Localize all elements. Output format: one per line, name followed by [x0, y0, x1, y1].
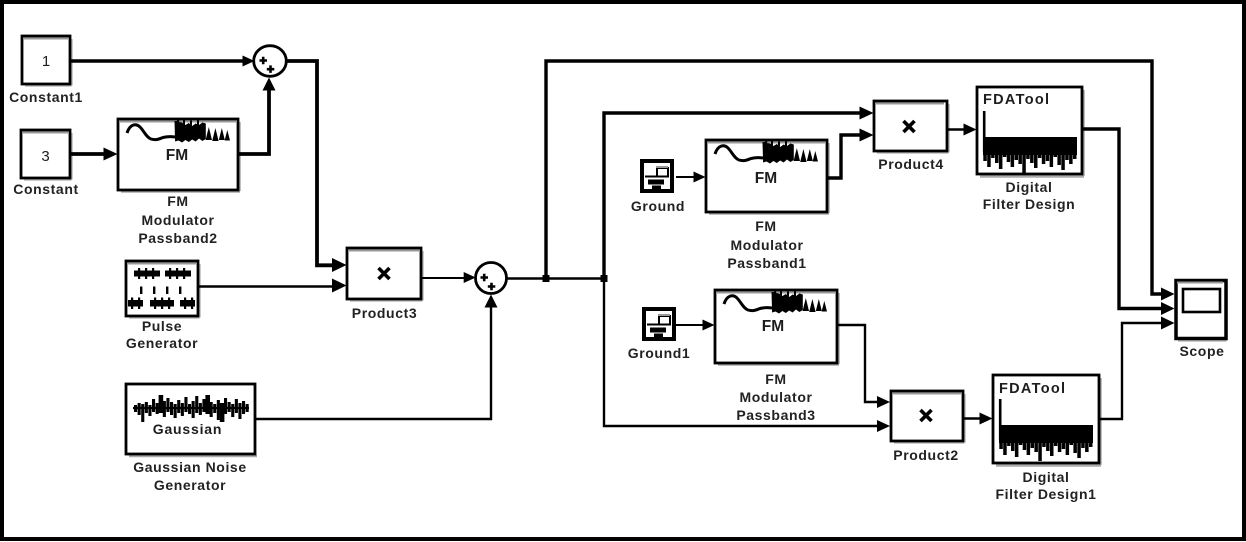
wire junction A up over top to Scope input 1 — [546, 61, 1175, 301]
svg-text:3: 3 — [41, 148, 49, 165]
wire Product3 to Sum2 — [421, 272, 476, 283]
svg-text:FM: FM — [755, 170, 777, 187]
block Pulse Generator — [126, 261, 200, 351]
svg-text:FM: FM — [765, 371, 786, 387]
wire Constant1 to Sum1 — [70, 56, 255, 67]
svg-text:Scope: Scope — [1179, 343, 1224, 359]
wire Sum1 to Product3 input 1 — [286, 61, 346, 272]
svg-text:Passband3: Passband3 — [736, 407, 815, 423]
wire FM Modulator Passband1 to Product4 input 2 — [827, 129, 874, 179]
block FM Modulator Passband2 — [118, 119, 240, 246]
svg-text:Product4: Product4 — [878, 156, 943, 172]
block Ground — [631, 161, 685, 214]
block Constant1 — [9, 36, 83, 105]
wire junction B to Product4 input 1 — [604, 107, 874, 279]
svg-text:FDATool: FDATool — [983, 92, 1050, 108]
block Scope — [1176, 281, 1227, 360]
svg-text:Product2: Product2 — [893, 447, 958, 463]
block Product4 — [874, 101, 949, 172]
wire Sum2 output to junctions — [507, 277, 605, 279]
block FM Modulator Passband1 — [706, 140, 829, 271]
svg-text:Modulator: Modulator — [739, 389, 812, 405]
svg-text:Passband1: Passband1 — [727, 255, 806, 271]
junction node A — [543, 275, 550, 282]
block Gaussian Noise Generator — [126, 384, 257, 493]
block Digital Filter Design1 — [993, 375, 1101, 502]
wire FM Modulator Passband3 to Product2 input 1 — [837, 325, 890, 408]
svg-text:Digital: Digital — [1023, 469, 1070, 485]
wire Constant to FM Modulator Passband2 — [70, 148, 118, 161]
sum block Sum2 — [476, 263, 507, 294]
svg-text:Filter Design: Filter Design — [983, 196, 1076, 212]
wire Ground to FM Modulator Passband1 — [676, 172, 706, 183]
svg-text:Pulse: Pulse — [142, 318, 182, 334]
svg-text:Generator: Generator — [126, 335, 198, 351]
svg-text:Filter Design1: Filter Design1 — [996, 486, 1097, 502]
wire Product4 to Digital Filter Design — [947, 124, 977, 136]
svg-text:Gaussian Noise: Gaussian Noise — [133, 459, 246, 475]
svg-text:Constant: Constant — [13, 181, 78, 197]
block Constant — [13, 130, 78, 197]
svg-text:Modulator: Modulator — [141, 212, 214, 228]
wire Product2 to Digital Filter Design1 — [963, 413, 993, 425]
wire FM Modulator Passband2 to Sum1 — [238, 78, 276, 155]
block FM Modulator Passband3 — [715, 290, 839, 423]
block Digital Filter Design — [977, 87, 1084, 212]
svg-text:Product3: Product3 — [352, 305, 417, 321]
svg-text:Gaussian: Gaussian — [153, 421, 222, 437]
svg-text:FM: FM — [755, 218, 776, 234]
block Ground1 — [628, 309, 691, 361]
svg-text:FM: FM — [166, 147, 188, 164]
svg-text:1: 1 — [42, 53, 50, 70]
svg-text:FDATool: FDATool — [999, 381, 1066, 397]
svg-text:Ground1: Ground1 — [628, 345, 691, 361]
svg-text:Modulator: Modulator — [730, 237, 803, 253]
junction node B — [601, 275, 608, 282]
svg-text:Digital: Digital — [1006, 179, 1053, 195]
block Product2 — [891, 391, 965, 463]
wire Ground1 to FM Modulator Passband3 — [676, 320, 715, 331]
wire Pulse Generator to Product3 input 2 — [198, 279, 347, 293]
svg-text:FM: FM — [762, 318, 784, 335]
block Product3 — [347, 248, 423, 321]
svg-text:Ground: Ground — [631, 198, 685, 214]
svg-text:Generator: Generator — [154, 477, 226, 493]
wire Digital Filter Design to Scope input 2 — [1082, 129, 1175, 315]
svg-text:FM: FM — [167, 193, 188, 209]
wire junction B down to Product2 input 2 — [604, 279, 890, 433]
svg-text:Constant1: Constant1 — [9, 89, 83, 105]
wire Digital Filter Design1 to Scope input 3 — [1099, 317, 1175, 420]
sum block Sum1 — [254, 46, 287, 77]
wire Gaussian to Sum2 — [255, 295, 498, 420]
svg-text:Passband2: Passband2 — [138, 230, 217, 246]
